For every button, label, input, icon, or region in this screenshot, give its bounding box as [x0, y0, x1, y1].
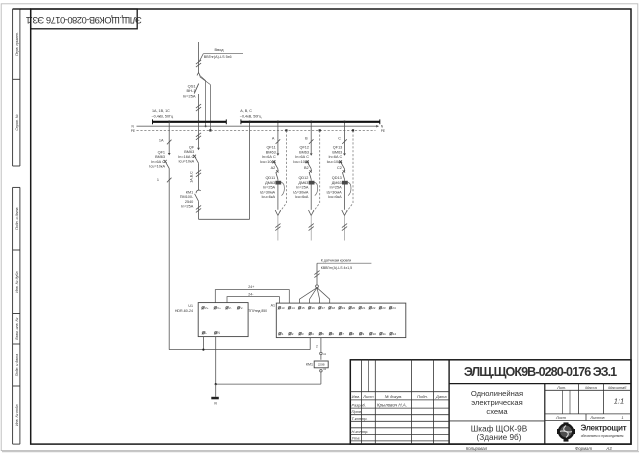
breaker QF1 — [168, 153, 171, 155]
U1 terminal N — [215, 332, 217, 334]
wire: A1 terminal 5 to coil — [320, 338, 322, 353]
node: QF12 tap — [310, 121, 313, 124]
svg-text:2540: 2540 — [185, 200, 193, 204]
svg-text:С: С — [338, 137, 341, 141]
A1 terminal 10 — [370, 333, 372, 335]
svg-text:IΔ=30мА: IΔ=30мА — [327, 190, 343, 194]
svg-text:12: 12 — [393, 332, 397, 336]
U1 terminal V- 2 — [237, 307, 239, 309]
svg-text:In=25А: In=25А — [181, 205, 194, 209]
svg-text:1А, 1В, 1С: 1А, 1В, 1С — [152, 109, 170, 113]
node: L junction — [202, 349, 204, 351]
A1 terminal 5 — [319, 333, 321, 335]
svg-text:схема: схема — [486, 407, 508, 416]
svg-text:ПМ100-: ПМ100- — [180, 195, 194, 199]
svg-text:Инв. № дубл.: Инв. № дубл. — [15, 271, 19, 293]
svg-text:А3: А3 — [605, 446, 612, 451]
A1 terminal 13 — [278, 307, 280, 309]
svg-text:QF1: QF1 — [158, 150, 165, 154]
svg-text:21: 21 — [362, 306, 366, 310]
wire: branch QF1 drop — [168, 122, 170, 153]
power supply U1 HDR-60-24 — [198, 303, 248, 337]
svg-text:ДМ63: ДМ63 — [298, 181, 308, 185]
svg-text:А2: А2 — [271, 166, 276, 170]
busbar A,B,C (switched section) — [241, 121, 380, 123]
svg-text:15: 15 — [301, 306, 305, 310]
title block — [350, 360, 631, 444]
svg-text:In=6А С: In=6А С — [328, 155, 342, 159]
svg-text:№ докум.: № докум. — [385, 394, 403, 399]
coil terminal A1 node — [320, 352, 323, 355]
coil terminal A2 node — [320, 370, 323, 373]
N bus — [137, 125, 379, 127]
designation cell — [449, 383, 631, 385]
label: Ввод / cable type — [199, 54, 203, 62]
svg-text:ЭЛЩ.ЩОК9В-0280-0176 ЭЗ.1: ЭЛЩ.ЩОК9В-0280-0176 ЭЗ.1 — [26, 15, 142, 26]
svg-text:Листов: Листов — [589, 415, 604, 420]
A1 terminal 6 — [329, 333, 331, 335]
svg-text:IΔ=30мА: IΔ=30мА — [260, 190, 276, 194]
svg-text:Подп. и дата: Подп. и дата — [15, 354, 19, 377]
svg-text:QD12: QD12 — [298, 176, 308, 180]
svg-text:In=25А: In=25А — [330, 186, 343, 190]
svg-text:QF12: QF12 — [300, 146, 310, 150]
node: PE tap of incoming — [209, 129, 211, 131]
A1 terminal 1 — [279, 333, 281, 335]
cable mark below KM1 — [196, 205, 201, 209]
wire: sensors cable — [316, 263, 318, 285]
node: sensors cable fanout — [316, 285, 319, 288]
svg-text:220В: 220В — [318, 363, 325, 367]
node: N tap of incoming — [205, 125, 207, 127]
breaker QF11 — [277, 153, 280, 155]
svg-text:Дата: Дата — [435, 394, 447, 399]
svg-text:ЭЛЩ.ЩОК9В-0280-0176 ЭЗ.1: ЭЛЩ.ЩОК9В-0280-0176 ЭЗ.1 — [464, 365, 617, 379]
wire: fanout to terminals 15-18 — [299, 288, 317, 303]
svg-text:24-: 24- — [248, 292, 254, 296]
node: QS1 to busbar — [197, 121, 200, 124]
wire: N+PE bypass from incoming cable — [199, 75, 205, 81]
svg-text:Пров.: Пров. — [352, 409, 363, 414]
svg-text:In=25А: In=25А — [296, 186, 309, 190]
wire: QD11 output — [277, 185, 279, 210]
A1 terminal 15 — [298, 307, 300, 309]
svg-text:U1: U1 — [188, 304, 193, 308]
wire: U1 L drop — [202, 337, 204, 350]
wire: QD12 output — [310, 185, 312, 210]
label: to roof sensors — [317, 262, 371, 264]
svg-text:Масса: Масса — [585, 385, 597, 390]
svg-text:Справ. №: Справ. № — [15, 114, 19, 130]
svg-text:2: 2 — [316, 345, 318, 349]
svg-text:А1: А1 — [271, 304, 275, 308]
contactor coil KM1 — [314, 361, 328, 368]
svg-text:22: 22 — [372, 306, 376, 310]
svg-text:L: L — [205, 331, 207, 335]
RCD QD12 — [310, 169, 312, 172]
cable mark on incoming feeder — [196, 60, 201, 64]
cable mark above KM1 — [196, 170, 201, 174]
wire: L feed to U1 and A1 terminal 4 — [169, 349, 310, 351]
svg-text:23: 23 — [382, 306, 386, 310]
wire: outgoing cable QF13 — [344, 216, 346, 241]
svg-text:КМ1: КМ1 — [306, 363, 313, 367]
svg-text:Ввод: Ввод — [215, 47, 225, 52]
svg-text:ДМ63: ДМ63 — [265, 181, 275, 185]
breaker QF13 — [343, 153, 346, 155]
A1 terminal 22 — [369, 307, 371, 309]
svg-text:QD13: QD13 — [332, 176, 342, 180]
svg-text:~0,4кВ, 50Гц: ~0,4кВ, 50Гц — [240, 115, 262, 119]
outgoing feeder arrow QF11 — [275, 210, 278, 215]
svg-text:Подп. и дата: Подп. и дата — [15, 207, 19, 230]
A1 terminal 14 — [288, 307, 290, 309]
svg-text:Icu=10кА: Icu=10кА — [178, 160, 194, 164]
svg-text:In=25А: In=25А — [183, 93, 196, 98]
svg-text:10: 10 — [373, 332, 377, 336]
breaker QF12 — [310, 153, 313, 155]
svg-text:QF13: QF13 — [333, 146, 343, 150]
wire: 24+ link — [215, 290, 289, 304]
N terminal bar — [211, 397, 219, 400]
A1 terminal 16 — [309, 307, 311, 309]
svg-text:V-: V- — [240, 306, 243, 310]
svg-text:11: 11 — [383, 332, 386, 336]
svg-text:Лит.: Лит. — [556, 385, 566, 390]
svg-text:ВВГнг(А)-LS 5х6: ВВГнг(А)-LS 5х6 — [204, 55, 232, 59]
svg-text:ВМ63: ВМ63 — [299, 150, 309, 154]
svg-text:Icu=6кА: Icu=6кА — [328, 195, 342, 199]
svg-text:20: 20 — [352, 306, 356, 310]
wire: U1 N drop — [215, 337, 217, 385]
svg-text:обновляем и присоединяем: обновляем и присоединяем — [581, 434, 624, 438]
svg-text:1:1: 1:1 — [614, 397, 624, 406]
svg-text:Однолинейная: Однолинейная — [471, 389, 523, 398]
svg-text:Перв. примен.: Перв. примен. — [15, 32, 19, 56]
svg-text:In=25А: In=25А — [263, 186, 276, 190]
svg-text:1: 1 — [621, 415, 623, 420]
svg-text:1: 1 — [157, 178, 159, 182]
svg-text:Взам. инв. №: Взам. инв. № — [15, 317, 19, 339]
node: QF11 tap — [277, 121, 280, 124]
svg-text:1А,В,С: 1А,В,С — [189, 171, 193, 183]
svg-text:QF11: QF11 — [266, 146, 275, 150]
svg-text:ВМ63: ВМ63 — [332, 150, 342, 154]
svg-text:In=16А С: In=16А С — [178, 155, 194, 159]
PE bus (dashed) — [137, 130, 376, 132]
A1 terminal 23 — [379, 307, 381, 309]
svg-text:13: 13 — [281, 306, 285, 310]
svg-text:ВМ63: ВМ63 — [266, 150, 276, 154]
svg-text:К датчикам кровли: К датчикам кровли — [321, 259, 351, 263]
U1 terminal V- 1 — [226, 307, 228, 309]
wire: coil to N — [320, 355, 322, 360]
wire: N conductor (dashed) of branch QF12 — [319, 129, 321, 131]
svg-text:Разраб.: Разраб. — [352, 402, 366, 407]
svg-text:14: 14 — [291, 306, 295, 310]
svg-text:16: 16 — [312, 306, 316, 310]
A1 terminal 17 — [319, 307, 321, 309]
svg-text:V+: V+ — [205, 306, 209, 310]
cable mark below QS1 — [196, 104, 201, 108]
A1 terminal 11 — [380, 333, 382, 335]
cable mark sensors — [314, 271, 319, 275]
U1 terminal V+ 2 — [214, 307, 216, 309]
svg-text:V+: V+ — [217, 306, 221, 310]
svg-text:QF: QF — [189, 145, 195, 149]
svg-text:Формат: Формат — [575, 446, 592, 451]
svg-text:24+: 24+ — [248, 285, 254, 289]
svg-text:18: 18 — [332, 306, 336, 310]
svg-text:ППУнпд 850: ППУнпд 850 — [248, 309, 267, 313]
outgoing feeder arrow QF12 — [309, 210, 312, 215]
RCD QD13 — [344, 169, 346, 172]
svg-text:Icu=6кА: Icu=6кА — [295, 195, 309, 199]
wire: feeder 1 down to PSU L — [168, 168, 170, 349]
A1 terminal 8 — [349, 333, 351, 335]
svg-text:In=6А С: In=6А С — [151, 160, 165, 164]
wire: 24- link — [227, 297, 279, 304]
wire: outgoing cable QF12 — [310, 216, 312, 241]
svg-text:17: 17 — [322, 306, 326, 310]
svg-text:Копировал: Копировал — [466, 446, 488, 451]
svg-text:In=6А С: In=6А С — [295, 155, 309, 159]
svg-text:Изм.: Изм. — [352, 394, 361, 399]
A1 terminal 2 — [289, 333, 291, 335]
wire: to N terminal — [215, 384, 217, 397]
A1 terminal 19 — [339, 307, 341, 309]
wire: N conductor (dashed) of branch QF13 — [352, 129, 354, 131]
svg-text:24: 24 — [392, 306, 396, 310]
A1 terminal 20 — [349, 307, 351, 309]
svg-text:N: N — [214, 401, 217, 405]
svg-text:(Здание 9б): (Здание 9б) — [477, 433, 522, 442]
A1 terminal 18 — [329, 307, 331, 309]
svg-text:С2: С2 — [337, 166, 342, 170]
svg-text:Масштаб: Масштаб — [608, 385, 627, 390]
cable mark outgoing QF12 — [309, 224, 314, 228]
svg-text:Т.контр.: Т.контр. — [352, 416, 368, 421]
outgoing feeder arrow QF13 — [342, 210, 345, 215]
wire: branch QF12 drop — [310, 123, 312, 153]
A1 terminal 12 — [390, 333, 392, 335]
RCD QD11 — [277, 169, 279, 172]
breaker QF2 — [197, 148, 200, 150]
lit massa masshtab header — [545, 389, 631, 391]
svg-text:Icu=10кА: Icu=10кА — [149, 165, 165, 169]
svg-text:Электрощит: Электрощит — [581, 424, 627, 433]
svg-text:QD11: QD11 — [265, 176, 275, 180]
svg-text:Утв.: Утв. — [352, 436, 361, 441]
wire: QF2 to KM1 — [198, 163, 200, 190]
svg-text:А, В, С: А, В, С — [240, 109, 252, 113]
U1 terminal L — [202, 332, 204, 334]
A1 terminal 9 — [360, 333, 362, 335]
list row — [545, 413, 631, 415]
svg-text:V-: V- — [229, 306, 232, 310]
svg-text:КВВГнг(А)-LS 4х1,5: КВВГнг(А)-LS 4х1,5 — [321, 266, 352, 270]
svg-text:PE: PE — [381, 129, 385, 133]
disconnector QS1 — [197, 73, 199, 76]
U1 terminal V+ 1 — [202, 307, 204, 309]
A1 terminal 4 — [309, 333, 311, 335]
wire: branch QF13 drop — [344, 123, 346, 153]
svg-text:ВМ63: ВМ63 — [155, 155, 165, 159]
A1 terminal 7 — [339, 333, 341, 335]
svg-text:ВМ63: ВМ63 — [184, 150, 194, 154]
cable mark outgoing QF13 — [342, 224, 347, 228]
svg-text:IΔ=30мА: IΔ=30мА — [293, 190, 309, 194]
wire: KM1 output to switched busbar riser — [198, 201, 200, 219]
wire: N conductor (dashed) of branch QF11 — [285, 129, 287, 131]
svg-text:Icu=10кА: Icu=10кА — [293, 160, 309, 164]
A1 terminal 24 — [389, 307, 391, 309]
svg-text:В2: В2 — [304, 166, 309, 170]
node: QF1 tap — [168, 121, 171, 124]
doc number box (rotated) — [31, 9, 138, 29]
busbar 1A,1B,1C (input section) — [153, 121, 227, 123]
contactor KM1 main contact — [196, 190, 201, 193]
cable mark outgoing QF11 — [275, 224, 280, 228]
terminal block A1 — [276, 303, 406, 338]
svg-text:Инв. № подл.: Инв. № подл. — [15, 404, 19, 426]
svg-text:Icu=10кА: Icu=10кА — [260, 160, 276, 164]
svg-text:PE: PE — [131, 129, 135, 133]
wire: branch QF11 drop — [277, 123, 279, 153]
node: QF13 tap — [343, 121, 346, 124]
svg-text:Лист: Лист — [362, 394, 374, 399]
svg-text:Крылович Н.А.: Крылович Н.А. — [377, 402, 407, 407]
svg-text:Лист: Лист — [555, 415, 567, 420]
node: N junction — [215, 383, 217, 385]
svg-text:Н.контр.: Н.контр. — [352, 429, 369, 434]
svg-text:1А: 1А — [159, 139, 164, 143]
svg-text:In=6А С: In=6А С — [262, 155, 276, 159]
svg-text:Icu=10кА: Icu=10кА — [327, 160, 343, 164]
svg-text:А: А — [272, 137, 275, 141]
wire: incoming feeder from top — [198, 42, 200, 73]
svg-text:Icu=6кА: Icu=6кА — [262, 195, 276, 199]
svg-text:КМ1: КМ1 — [186, 190, 194, 194]
svg-text:ДМ63: ДМ63 — [332, 181, 342, 185]
wire: outgoing cable QF11 — [277, 216, 279, 241]
svg-text:электрическая: электрическая — [471, 398, 523, 407]
A1 terminal 21 — [359, 307, 361, 309]
wire: branch QF2 drop — [198, 123, 200, 148]
wire: QD13 output — [344, 185, 346, 210]
node: KM1 output riser tap — [248, 121, 251, 124]
svg-text:HDR-60-24: HDR-60-24 — [175, 309, 193, 313]
svg-text:~0,4кВ, 50Гц: ~0,4кВ, 50Гц — [152, 115, 174, 119]
svg-text:19: 19 — [342, 306, 346, 310]
cable mark below bus — [196, 133, 201, 137]
svg-text:Подп.: Подп. — [417, 394, 428, 399]
logo Electroshchit — [558, 423, 574, 439]
A1 terminal 3 — [299, 333, 301, 335]
